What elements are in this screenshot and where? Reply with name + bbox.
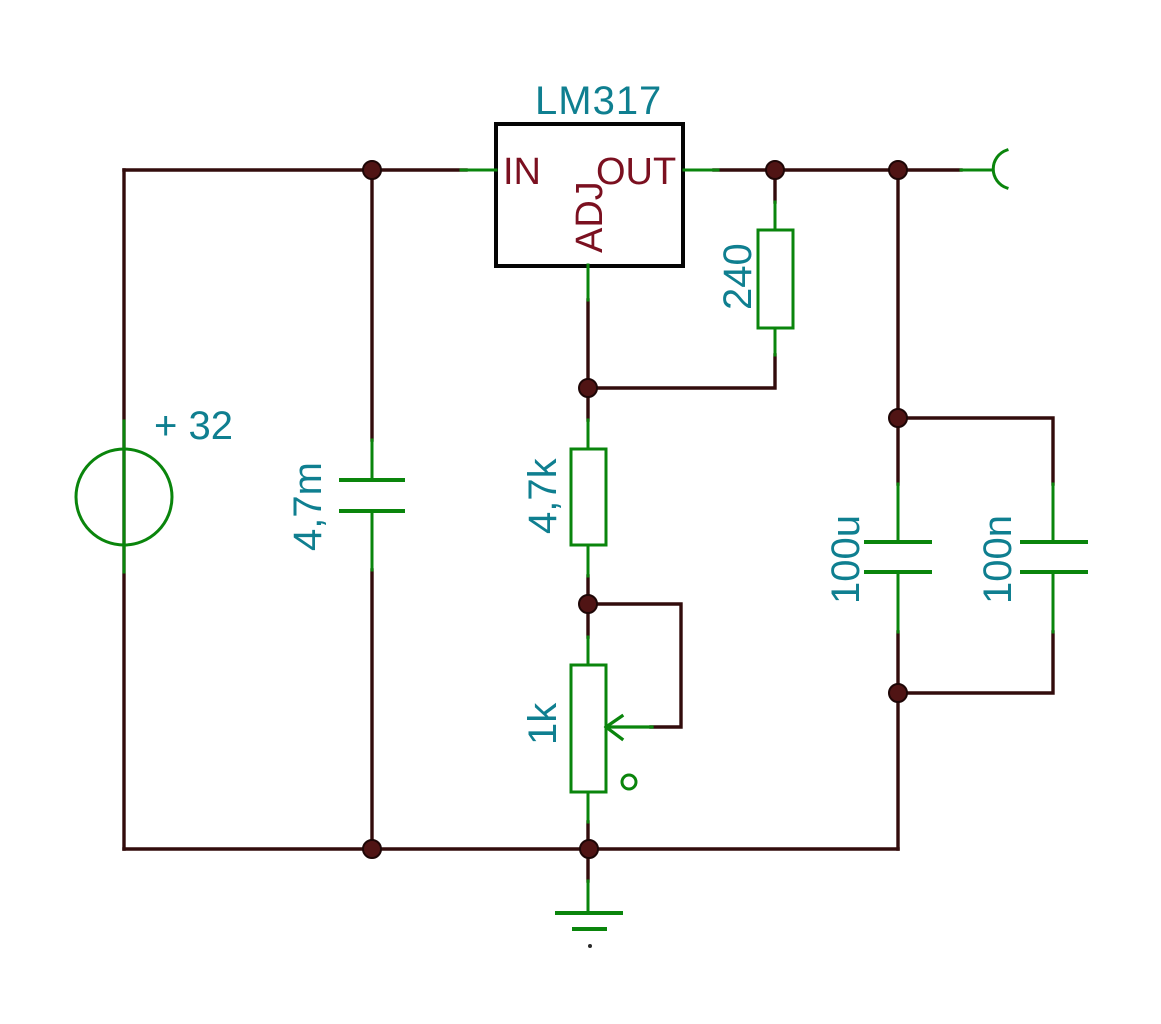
potentiometer P1 1k [571,637,606,822]
wire 100n loop top [898,418,1053,484]
pin IN green segment [461,169,496,172]
IC U1 LM317 box [496,124,683,266]
potentiometer open-end marker o [622,775,636,789]
wire pot wiper loop [597,604,681,727]
wire R1 top dark [773,179,776,202]
wire R2 dark segments [586,397,589,604]
node junction dot R1 top [766,161,784,179]
svg-text:1k: 1k [521,702,565,745]
ground third mark dot [588,944,592,948]
resistor R2 4,7k [571,420,606,576]
svg-text:240: 240 [716,243,760,310]
ground [557,881,621,929]
pin ADJ green segment [587,265,590,300]
svg-text:4,7m: 4,7m [286,462,330,551]
wire ADJ vertical dark [586,300,589,388]
wire OUT pin to output connector [714,168,961,171]
output connector [961,150,1007,188]
node junction dot output branch [889,161,907,179]
node junction dot 100u top [889,409,907,427]
wire top horizontal from source to IN pin [124,168,466,171]
wire ground stem dark [586,849,589,881]
wire ADJ node to R1 bottom [588,355,775,388]
svg-text:100u: 100u [824,515,868,604]
svg-text:ADJ: ADJ [569,181,611,253]
wire bottom horizontal [124,847,898,850]
svg-text:LM317: LM317 [535,79,662,123]
capacitor C1 4,7m [341,440,403,570]
node junction dot 100u bottom [889,684,907,702]
voltage source V1 [76,421,172,572]
wire 100n loop bottom [898,632,1053,693]
node junction dot top cap [363,161,381,179]
node junction dot bottom ground [580,840,598,858]
svg-text:100n: 100n [976,515,1020,604]
node junction dot pot top [579,595,597,613]
svg-text:+ 32: + 32 [154,404,233,448]
capacitor C3 100n [1022,484,1086,632]
wire right vertical output branch [896,170,899,849]
wire cap C1 branch dark segments [370,179,373,849]
node junction dot ADJ [579,379,597,397]
potentiometer wiper arrow [606,716,652,739]
svg-text:4,7k: 4,7k [521,457,565,534]
node junction dot bottom cap [363,840,381,858]
svg-text:IN: IN [503,151,541,193]
capacitor C2 100u [866,484,930,632]
wire pot bottom dark [586,604,589,849]
pin OUT green segment [684,169,718,172]
wire left vertical [122,170,125,849]
resistor R1 240 [758,202,793,355]
